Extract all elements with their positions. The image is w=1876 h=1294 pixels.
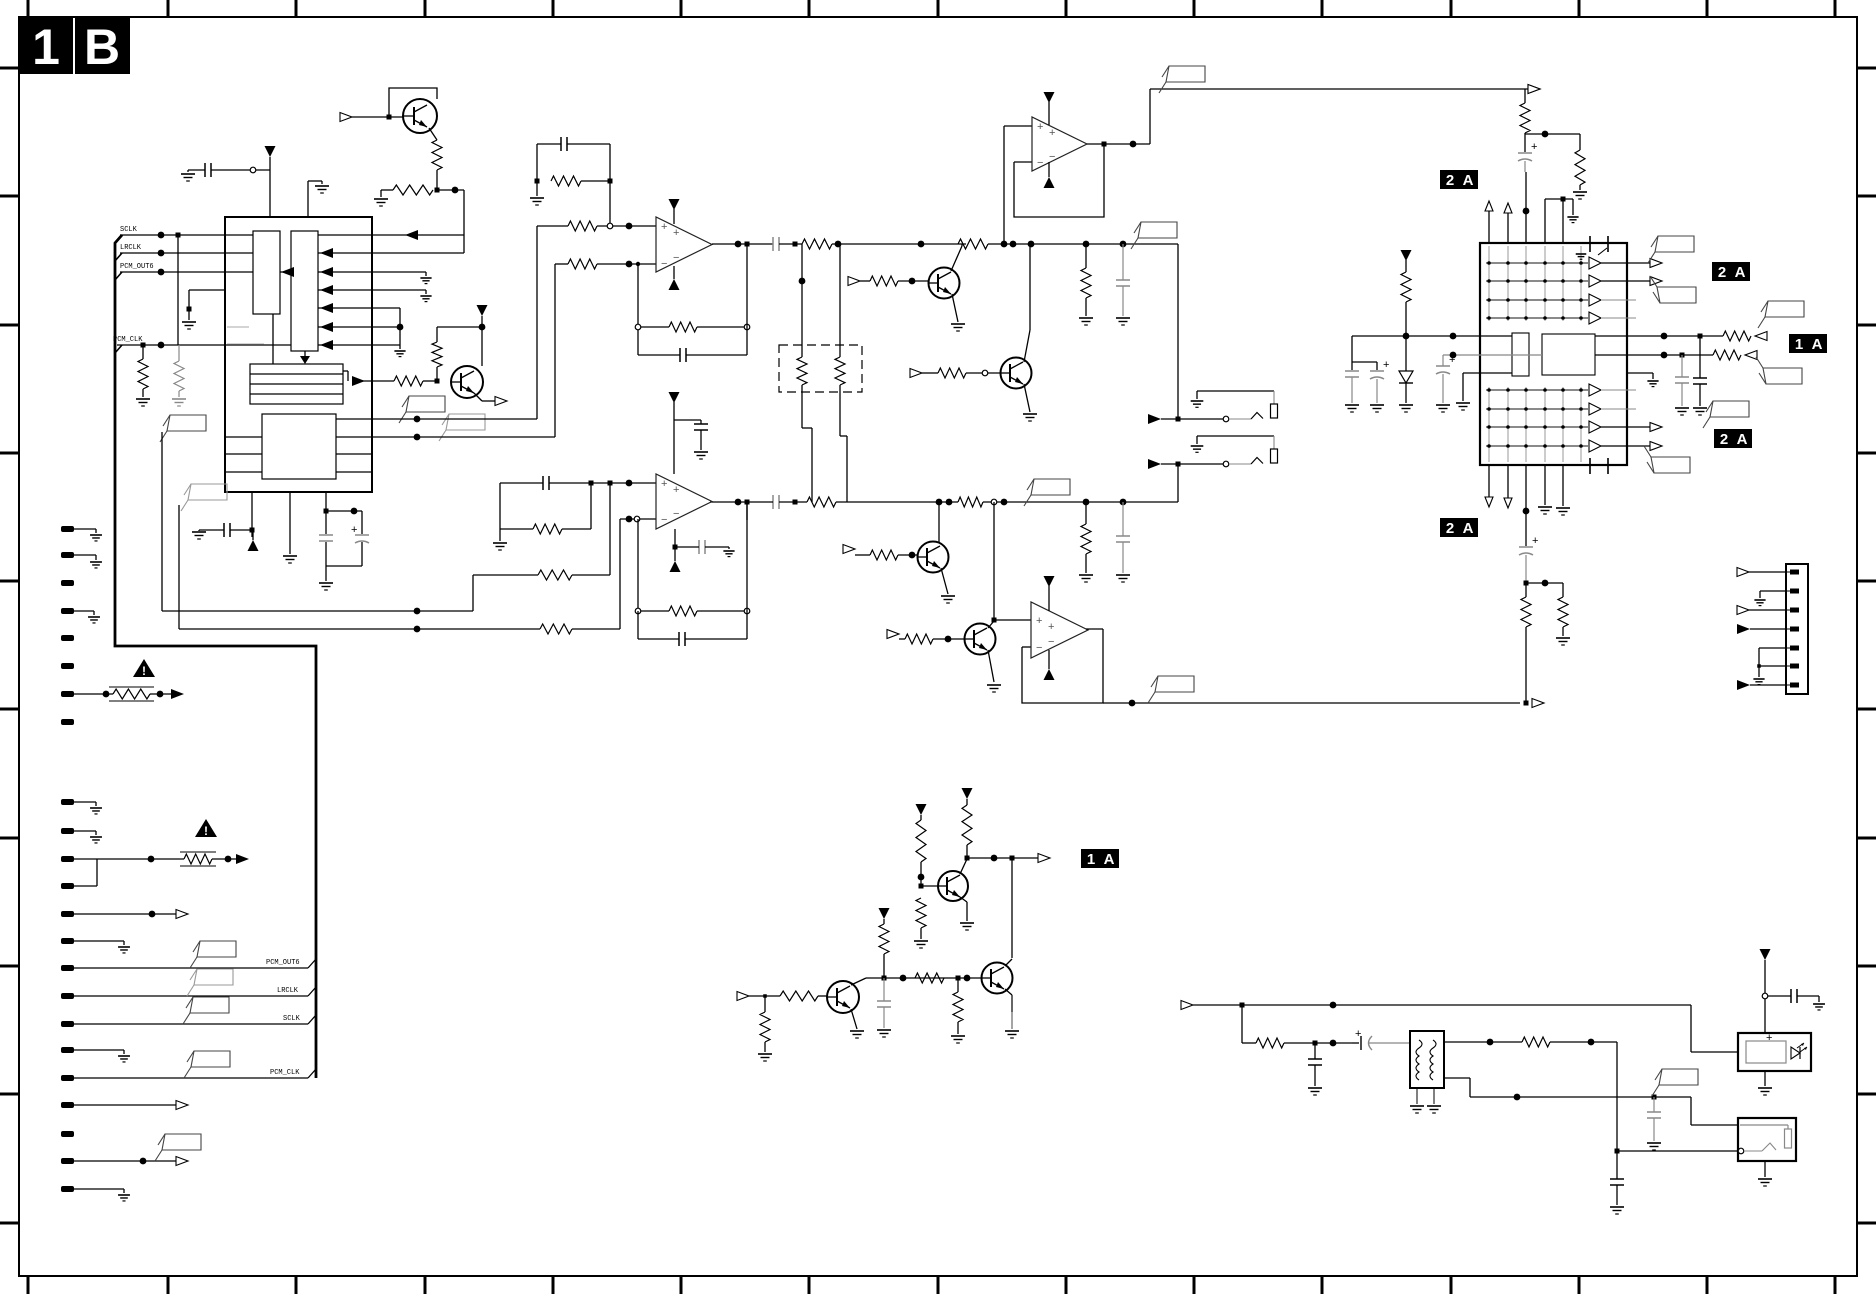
- wire: [372, 436, 555, 438]
- transistor Q1: [403, 99, 437, 133]
- pin: [61, 691, 74, 697]
- wire: [967, 857, 1038, 859]
- resistor R37: [915, 973, 944, 983]
- flag: [1655, 236, 1694, 252]
- wire: [1562, 465, 1564, 506]
- wire: [1177, 244, 1179, 419]
- wire: [1627, 372, 1653, 374]
- op-amp U3: [1032, 117, 1087, 171]
- wire: [988, 650, 994, 682]
- wire: [1525, 465, 1527, 546]
- resistor R5: [394, 376, 423, 386]
- ground: [90, 807, 102, 809]
- capacitor C7: [772, 237, 774, 251]
- ground: [1023, 413, 1037, 415]
- ground: [192, 531, 206, 533]
- wire: [1004, 125, 1032, 127]
- IC U1: [225, 217, 372, 492]
- wire: [1488, 211, 1490, 243]
- wire: [960, 859, 967, 874]
- capacitor C22: [877, 1000, 891, 1002]
- ground: [1436, 404, 1450, 406]
- jack J4: [1738, 1118, 1796, 1161]
- wire: [1595, 335, 1723, 337]
- pin: [61, 1158, 74, 1164]
- capacitor C12: [694, 423, 708, 425]
- flag: [190, 997, 229, 1013]
- ground: [723, 550, 734, 552]
- svg-text:−: −: [1036, 642, 1042, 654]
- transistor Q5: [918, 542, 949, 573]
- capacitor C3: [319, 534, 333, 536]
- input marker: [1755, 332, 1767, 341]
- wire: [1759, 647, 1786, 649]
- capacitor C20: [1693, 377, 1707, 379]
- feedback C6: [679, 348, 681, 362]
- resistor R2: [393, 185, 433, 195]
- power V12: [1401, 250, 1412, 261]
- U6 buffers: [1589, 257, 1601, 269]
- wire: [1011, 858, 1013, 958]
- svg-text:+: +: [1037, 121, 1043, 133]
- wire: [1690, 1005, 1692, 1052]
- svg-text:LRCLK: LRCLK: [120, 244, 142, 252]
- power V9: [670, 561, 681, 572]
- jack J2: [1148, 459, 1161, 469]
- marker: [176, 1101, 188, 1110]
- svg-text:1: 1: [1087, 851, 1095, 868]
- wire: [343, 370, 348, 372]
- wire: [499, 529, 501, 541]
- svg-text:+: +: [1532, 535, 1538, 547]
- wire: [1507, 213, 1509, 243]
- wire: [637, 519, 639, 611]
- ground: [960, 922, 974, 924]
- pin: [61, 883, 74, 889]
- resistor R36: [916, 898, 926, 928]
- svg-text:+: +: [1383, 359, 1389, 371]
- wire: [952, 294, 958, 322]
- ground: [941, 595, 955, 597]
- input marker: [1737, 624, 1750, 634]
- capacitor C16: [1370, 370, 1384, 372]
- power V13: [962, 788, 973, 799]
- ground: [1427, 1105, 1441, 1107]
- wire: [436, 327, 438, 342]
- resistor R31: [1713, 350, 1741, 360]
- resistor R29: [1575, 150, 1585, 185]
- ground: [850, 1030, 864, 1032]
- ground: [420, 277, 431, 279]
- input marker: [1737, 568, 1749, 577]
- wire: [318, 271, 426, 273]
- resistor R28: [1520, 103, 1530, 133]
- svg-text:−: −: [1048, 636, 1054, 648]
- resistor R9: [568, 259, 597, 269]
- ground: [88, 616, 100, 618]
- svg-text:PCM_CLK: PCM_CLK: [113, 336, 143, 344]
- wire: [554, 264, 556, 437]
- flag 2A: [1440, 170, 1478, 189]
- resistor R43: [1522, 1037, 1550, 1047]
- resistor R38: [953, 992, 963, 1022]
- net PCM_OUT6: [120, 271, 253, 273]
- resistor R24: [540, 624, 572, 634]
- resistor R26: [905, 634, 933, 644]
- ground: [1410, 1105, 1424, 1107]
- input marker: [340, 113, 352, 122]
- flag 1A: [1081, 849, 1119, 868]
- capacitor C8: [1116, 279, 1130, 281]
- wire: [1760, 590, 1786, 592]
- flag: [1138, 222, 1177, 238]
- svg-text:+: +: [673, 227, 679, 239]
- svg-text:2: 2: [1446, 520, 1454, 537]
- U6 matrix top: [1486, 262, 1588, 264]
- wire: [951, 246, 962, 271]
- svg-text:2: 2: [1718, 264, 1726, 281]
- wire: [620, 518, 656, 520]
- wire: [866, 977, 982, 979]
- bus: [115, 235, 316, 1078]
- pin: [61, 663, 74, 669]
- net LRCLK: [61, 993, 74, 999]
- capacitor C10: [1116, 535, 1130, 537]
- wire: [609, 144, 611, 226]
- wire: [304, 351, 306, 356]
- flag 2A: [1714, 429, 1752, 448]
- wire: [1149, 89, 1151, 144]
- fusible resistor F1: [113, 689, 150, 699]
- flag: [197, 941, 236, 957]
- ground: [493, 542, 507, 544]
- resistor R7: [551, 176, 581, 186]
- capacitor C27: [1610, 1178, 1624, 1180]
- resistor R12: [958, 239, 988, 249]
- power V2: [477, 305, 488, 316]
- pin: [61, 1102, 74, 1108]
- wire: [1444, 1041, 1522, 1043]
- output marker: [1650, 442, 1662, 451]
- ground: [136, 398, 150, 400]
- wire: [1024, 330, 1030, 362]
- pin: [61, 1047, 74, 1053]
- ground: [374, 198, 388, 200]
- input marker: [848, 277, 860, 286]
- pin: [61, 828, 74, 834]
- resistor R19: [958, 497, 983, 507]
- capacitor C26: [1790, 989, 1792, 1003]
- pin: [61, 608, 74, 614]
- wire: [938, 502, 940, 543]
- wire: [988, 621, 994, 628]
- pin: [61, 856, 74, 862]
- flag: [1031, 479, 1070, 495]
- ground: [1675, 407, 1689, 409]
- ground: [172, 398, 186, 400]
- input marker: [1745, 351, 1757, 360]
- ground: [118, 946, 130, 948]
- fusible resistor F2: [184, 854, 212, 864]
- resistor R34: [962, 805, 972, 845]
- warning: [133, 659, 155, 677]
- power V4: [669, 199, 680, 210]
- U6 pin marks: [1589, 236, 1591, 252]
- wire: [1544, 465, 1546, 505]
- wire: [336, 436, 372, 438]
- resistor R39: [879, 924, 889, 954]
- ground: [319, 582, 333, 584]
- resistor R3: [138, 359, 148, 389]
- resistor R35: [916, 820, 926, 862]
- capacitor C17: [1518, 152, 1532, 154]
- ground: [1567, 216, 1578, 218]
- wire: [746, 244, 748, 355]
- svg-text:A: A: [1812, 336, 1823, 353]
- flag: [1166, 66, 1205, 82]
- resistor R16: [938, 368, 966, 378]
- marker: [1038, 854, 1050, 863]
- wire: [1524, 581, 1529, 586]
- ground: [1456, 402, 1470, 404]
- wire: [1544, 199, 1546, 243]
- wire: [1601, 389, 1636, 391]
- wire: [318, 289, 426, 291]
- resistor R40: [780, 991, 818, 1001]
- feedback C13: [678, 632, 680, 646]
- resistor R4: [174, 361, 184, 391]
- wire: [1507, 465, 1509, 498]
- svg-text:+: +: [1036, 615, 1042, 627]
- svg-text:+: +: [661, 221, 667, 233]
- wire: [637, 264, 639, 355]
- svg-text:−: −: [661, 258, 667, 270]
- wire: [993, 502, 995, 620]
- svg-text:+: +: [1048, 621, 1054, 633]
- net PCM_CLK: [61, 1075, 74, 1081]
- pin: [61, 552, 74, 558]
- wire: [536, 226, 538, 419]
- capacitor C15: [1345, 370, 1359, 372]
- resistor R14: [835, 357, 845, 385]
- wire: [227, 326, 249, 328]
- resistor R21: [870, 550, 898, 560]
- flag: [1710, 401, 1749, 417]
- wire: [161, 432, 163, 611]
- power V16: [1760, 949, 1771, 960]
- wire: [1024, 384, 1030, 412]
- resistor R27: [1401, 272, 1411, 302]
- output marker: [1532, 699, 1544, 708]
- U1 block B: [291, 231, 318, 351]
- wire: [389, 88, 437, 117]
- ground: [987, 684, 1001, 686]
- flag: [1765, 301, 1804, 317]
- flag: [406, 396, 445, 412]
- ground: [758, 1053, 772, 1055]
- power V15: [879, 908, 890, 919]
- net PCM_OUT6: [61, 965, 74, 971]
- wire: [1005, 989, 1012, 995]
- zener D1: [1399, 371, 1413, 383]
- capacitor C5: [560, 137, 562, 151]
- jack J1: [1148, 414, 1161, 424]
- pin: [61, 526, 74, 532]
- transistor Q6: [965, 624, 996, 655]
- output marker: [1528, 85, 1540, 94]
- wire: [1241, 1005, 1243, 1043]
- capacitor C19: [1675, 376, 1689, 378]
- transistor Q2: [451, 366, 483, 398]
- flag 1A: [1789, 334, 1827, 353]
- transistor Q7: [938, 871, 968, 901]
- ground: [1345, 404, 1359, 406]
- ground: [394, 350, 405, 352]
- wire: [318, 326, 400, 328]
- power V10: [1044, 576, 1055, 587]
- ground: [530, 197, 544, 199]
- wire: [325, 542, 327, 566]
- input marker: [1485, 497, 1493, 507]
- capacitor C18: [1436, 365, 1450, 367]
- wire: [1764, 996, 1766, 1033]
- ground: [1399, 404, 1413, 406]
- wire: [179, 628, 540, 630]
- pin: [61, 1186, 74, 1192]
- flag: [1651, 457, 1690, 473]
- capacitor C4: [355, 534, 369, 536]
- wire: [674, 529, 676, 547]
- resistor R33: [1558, 597, 1568, 627]
- input marker: [1504, 498, 1512, 508]
- marker: [176, 910, 188, 919]
- svg-text:!: !: [142, 664, 146, 678]
- wire: [1525, 172, 1527, 243]
- pin: [61, 911, 74, 917]
- wire: [1352, 335, 1512, 337]
- output marker: [1528, 85, 1540, 94]
- pin: [61, 1131, 74, 1137]
- output marker: [495, 397, 507, 406]
- wire: [289, 492, 291, 554]
- svg-text:+: +: [1766, 1032, 1772, 1044]
- node: [387, 115, 392, 120]
- ground: [877, 1029, 891, 1031]
- svg-text:LRCLK: LRCLK: [277, 987, 299, 995]
- capacitor C14: [698, 540, 700, 554]
- op-amp U2: [656, 217, 712, 272]
- svg-text:!: !: [204, 824, 208, 838]
- wire: [251, 492, 253, 537]
- resistor R15: [870, 276, 898, 286]
- svg-text:−: −: [1037, 157, 1043, 169]
- ground: [315, 185, 329, 187]
- input marker: [910, 369, 922, 378]
- svg-text:A: A: [1735, 264, 1746, 281]
- wire: [1444, 1077, 1470, 1079]
- input marker: [1181, 1001, 1193, 1010]
- svg-text:−: −: [661, 514, 667, 526]
- ground: [90, 836, 102, 838]
- op-amp U4: [656, 474, 712, 529]
- capacitor C24: [1308, 1058, 1322, 1060]
- input marker: [1737, 680, 1750, 690]
- wire: [1601, 262, 1650, 264]
- flag 2A: [1712, 262, 1750, 281]
- pin: [61, 719, 74, 725]
- ground: [1556, 637, 1570, 639]
- wire: [318, 234, 464, 236]
- wire: [1086, 628, 1103, 630]
- wire: [162, 610, 473, 612]
- net SCLK: [120, 234, 253, 236]
- ground: [1573, 191, 1587, 193]
- resistor R1: [432, 140, 442, 170]
- marker: [171, 689, 184, 699]
- wire: [318, 252, 464, 254]
- transistor Q3: [929, 268, 960, 299]
- net PCM_CLK: [117, 344, 291, 346]
- wire: [1616, 1042, 1618, 1151]
- pin: [61, 799, 74, 805]
- capacitor C25: [1647, 1111, 1661, 1113]
- ground: [283, 555, 297, 557]
- power V3: [248, 540, 259, 551]
- wire: [178, 505, 180, 629]
- ground: [914, 940, 928, 942]
- input marker: [887, 630, 899, 639]
- power V6: [1044, 92, 1055, 103]
- wire: [225, 436, 262, 438]
- resistor R11: [802, 239, 832, 249]
- ground: [1753, 678, 1764, 680]
- small ground: [1576, 253, 1587, 255]
- wire: [1443, 354, 1542, 356]
- bus joint: [115, 253, 122, 261]
- resistor R17: [1081, 268, 1091, 298]
- wire: [960, 897, 967, 902]
- flag: [194, 969, 233, 985]
- power V8: [669, 392, 680, 403]
- wire: [474, 393, 482, 401]
- frame tick marks: [27, 0, 30, 17]
- U6 sub block B: [1542, 334, 1595, 375]
- ground: [1556, 507, 1570, 509]
- ground: [1005, 1030, 1019, 1032]
- ground: [1758, 1178, 1772, 1180]
- ground: [1079, 317, 1093, 319]
- marker: [176, 1157, 188, 1166]
- capacitor C1: [204, 163, 206, 177]
- wire: [1488, 465, 1490, 497]
- svg-text:B: B: [84, 19, 120, 75]
- svg-text:+: +: [1531, 141, 1537, 153]
- resistor R23: [538, 570, 572, 580]
- transistor Q8: [982, 963, 1013, 994]
- U1 block A: [253, 231, 280, 314]
- resistor R32: [1521, 597, 1531, 627]
- wire: [1617, 1150, 1738, 1152]
- ground: [1308, 1087, 1322, 1089]
- svg-text:PCM_OUT6: PCM_OUT6: [120, 263, 154, 271]
- net LRCLK: [120, 252, 253, 254]
- wire: [437, 189, 464, 191]
- op-amp U5: [1031, 602, 1088, 658]
- wire: [1601, 299, 1636, 301]
- input marker: [1504, 203, 1512, 213]
- svg-text:2: 2: [1446, 172, 1454, 189]
- ground: [951, 323, 965, 325]
